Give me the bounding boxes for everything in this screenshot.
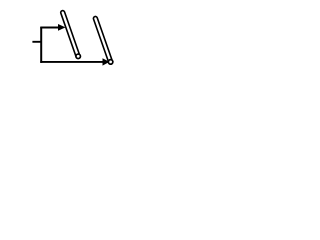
arrow contact of SW1 [58, 24, 66, 31]
hinge pivot of SW1 [76, 54, 81, 59]
arrow contact of SW2 [103, 58, 110, 65]
hinge pivot of SW2 [108, 60, 113, 65]
wire: bottom branch [40, 61, 103, 63]
wire: left input stub [32, 41, 41, 43]
wire: top branch [40, 27, 58, 29]
switch blade SW1 (slanted bar) [60, 10, 80, 59]
switch blade SW2 (slanted bar) [93, 16, 113, 65]
wire: vertical bus [40, 27, 42, 63]
